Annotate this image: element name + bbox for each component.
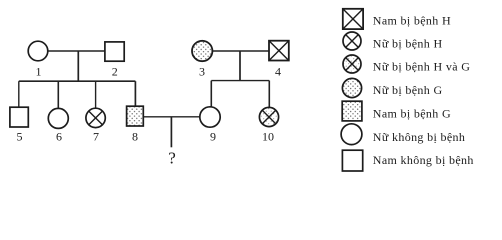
individual 4: male with disease H (crossed square) [269, 41, 289, 61]
wire: drop to individual 8 [134, 81, 136, 106]
wire: drop to individual 7 [95, 81, 97, 108]
individual 10: female with diseases H and G (crossed dotted circle) [259, 107, 278, 126]
wire: marriage line 1-2 [47, 50, 106, 52]
individual 7: female with disease H (crossed circle) [86, 108, 105, 127]
svg-text:Nam bị bệnh G: Nam bị bệnh G [373, 107, 451, 121]
svg-text:2: 2 [112, 64, 118, 78]
svg-text:9: 9 [210, 129, 216, 143]
svg-text:4: 4 [275, 64, 281, 78]
wire: sibling line of 9,10 [211, 80, 269, 82]
svg-text:7: 7 [93, 129, 99, 143]
svg-text:Nữ bị bệnh H và G: Nữ bị bệnh H và G [373, 60, 470, 74]
svg-text:3: 3 [199, 64, 205, 78]
wire: drop to individual 9 [210, 81, 212, 107]
wire: drop from couple 1-2 to sibling line [77, 51, 79, 81]
wire: drop to individual 5 [18, 81, 20, 107]
individual 8: male with disease G (dotted square) [127, 106, 144, 126]
wire: drop from couple 8-9 to ? [170, 117, 172, 148]
legend symbol: crossed dotted circle (Nu bi benh H va G) [343, 55, 361, 73]
legend symbol: crossed circle (Nu bi benh H) [343, 32, 361, 50]
svg-text:Nam không bị bệnh: Nam không bị bệnh [373, 153, 474, 167]
individual 1: unaffected female circle [28, 41, 48, 61]
svg-text:Nữ không bị bệnh: Nữ không bị bệnh [373, 130, 465, 144]
svg-text:10: 10 [262, 129, 274, 143]
individual 2: unaffected male square [105, 42, 124, 61]
individual 6: unaffected female circle [48, 108, 68, 128]
svg-text:Nữ bị bệnh G: Nữ bị bệnh G [373, 83, 443, 97]
legend symbol: plain square (Nam khong bi benh) [342, 150, 362, 171]
individual 5: unaffected male square [10, 107, 28, 127]
svg-text:1: 1 [36, 64, 42, 78]
svg-text:5: 5 [17, 129, 23, 143]
individual 9: unaffected female circle [200, 107, 220, 127]
legend symbol: plain circle (Nu khong bi benh) [341, 124, 362, 145]
svg-text:8: 8 [132, 129, 138, 143]
legend symbol: dotted circle (Nu bi benh G) [342, 78, 361, 97]
wire: drop from couple 3-4 to sibling line [239, 51, 241, 81]
wire: marriage line 3-4 [212, 50, 269, 52]
legend symbol: dotted square (Nam bi benh G) [342, 101, 362, 121]
svg-text:6: 6 [56, 129, 62, 143]
legend symbol: crossed square (Nam bi benh H) [343, 9, 363, 29]
wire: drop to individual 6 [57, 81, 59, 108]
svg-text:Nữ bị bệnh H: Nữ bị bệnh H [373, 36, 443, 50]
wire: drop to individual 10 [268, 81, 270, 108]
wire: marriage line 8-9 [143, 116, 200, 118]
svg-text:?: ? [168, 149, 176, 168]
svg-text:Nam bị bệnh H: Nam bị bệnh H [373, 14, 451, 28]
individual 3: female with disease G (dotted circle) [192, 41, 212, 61]
wire: sibling line of 5,6,7,8 [19, 80, 136, 82]
